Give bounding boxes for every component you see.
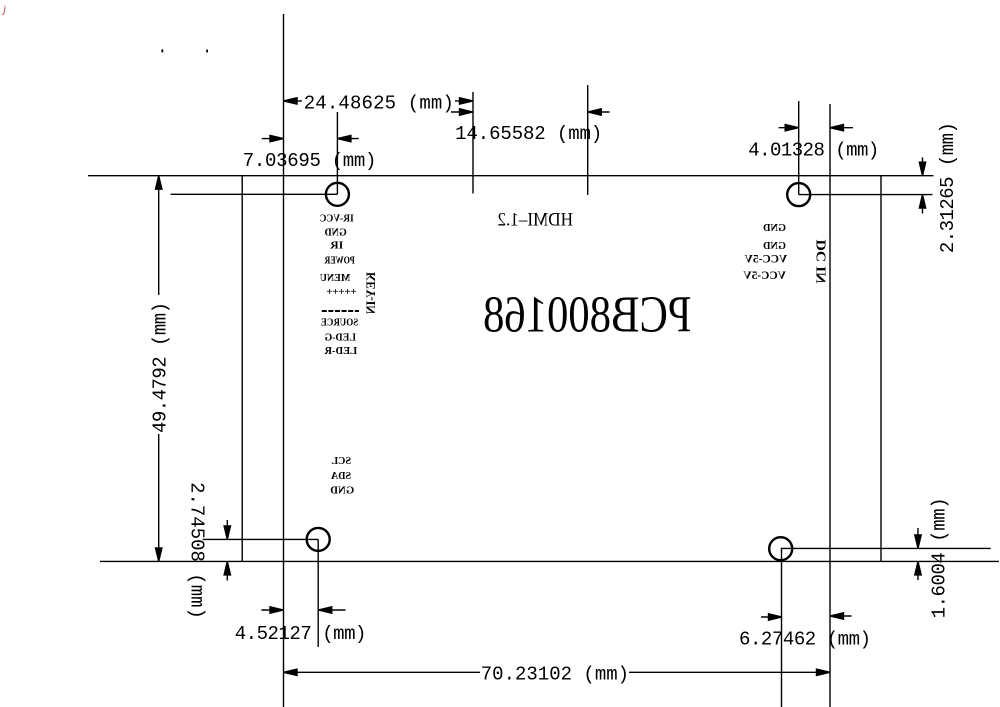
svg-text:LED-R: LED-R bbox=[324, 346, 358, 357]
dimension 70.23102 line-left bbox=[284, 671, 481, 673]
svg-text:GND: GND bbox=[763, 241, 786, 252]
dimension 6.27462 arrow-right outside bbox=[830, 615, 852, 617]
dimension 1.6004 arrow-bottom outside bbox=[917, 561, 919, 580]
svg-text:SDA: SDA bbox=[331, 470, 351, 482]
wire left inner vertical line bbox=[241, 176, 243, 562]
svg-text:LED-G: LED-G bbox=[324, 333, 356, 344]
dimension 24.48625 arrow-left bbox=[284, 98, 298, 104]
wire top-left hole horizontal leader bbox=[171, 193, 338, 195]
dimension 24.48625 line-left bbox=[284, 100, 303, 102]
wire right inner vertical line bbox=[880, 176, 882, 562]
svg-text:24.48625 (mm): 24.48625 (mm) bbox=[304, 92, 454, 114]
dimension 70.23102 line-right bbox=[629, 671, 830, 673]
dimension 24.48625 line-right bbox=[455, 100, 473, 102]
dimension 2.31265 arrow-bottom outside bbox=[922, 195, 924, 214]
dimension 4.52127 arrow-left outside bbox=[261, 609, 283, 611]
svg-text:GND: GND bbox=[330, 484, 354, 496]
svg-text:49.4792 (mm): 49.4792 (mm) bbox=[150, 302, 172, 433]
dimension 4.52127 arrow-right outside bbox=[318, 609, 345, 611]
svg-text:6.27462 (mm): 6.27462 (mm) bbox=[739, 629, 871, 651]
fiducial dot right bbox=[206, 50, 208, 53]
wire bottom-left hole horizontal leader bbox=[203, 538, 319, 540]
svg-text:GND: GND bbox=[325, 228, 347, 239]
wire top-right hole horizontal leader bbox=[799, 194, 933, 196]
wire bottom-right hole vertical extension bbox=[781, 549, 783, 707]
dimension 4.01328 arrow-left outside bbox=[779, 127, 799, 129]
svg-text:7.03695 (mm): 7.03695 (mm) bbox=[243, 150, 377, 172]
svg-text:GND: GND bbox=[763, 223, 786, 234]
fiducial dot left bbox=[161, 49, 163, 52]
svg-text:14.65582 (mm): 14.65582 (mm) bbox=[455, 123, 602, 145]
dimension 14.65582 arrow-right outside bbox=[588, 111, 610, 113]
wire bottom board edge line bbox=[100, 560, 999, 562]
svg-text:KEY-IN: KEY-IN bbox=[363, 272, 378, 315]
dimension 49.4792 arrow-bottom bbox=[156, 548, 162, 562]
wire bottom-left hole vertical extension bbox=[317, 539, 319, 647]
svg-text:2.74508 (mm): 2.74508 (mm) bbox=[186, 482, 208, 619]
svg-text:j: j bbox=[1, 4, 6, 16]
dimension 2.74508 arrow-top outside bbox=[226, 520, 228, 539]
svg-text:+++++: +++++ bbox=[326, 286, 357, 298]
svg-text:IR-VCC: IR-VCC bbox=[320, 214, 354, 225]
dimension 2.31265 arrow-top outside bbox=[922, 157, 924, 175]
silkscreen dash row mirrored bbox=[322, 310, 359, 312]
svg-text:VCC-5V: VCC-5V bbox=[744, 253, 787, 265]
dimension 14.65582 arrow-left outside bbox=[451, 111, 473, 113]
svg-text:SCL: SCL bbox=[331, 455, 351, 467]
svg-text:4.52127 (mm): 4.52127 (mm) bbox=[235, 623, 367, 645]
hole bottom-right bbox=[769, 537, 792, 560]
wire top-right hole vertical extension bbox=[798, 101, 800, 195]
wire bottom-right hole horizontal leader bbox=[781, 547, 991, 549]
hole top-right bbox=[787, 183, 810, 206]
svg-text:MENU: MENU bbox=[320, 273, 350, 284]
dimension 49.4792 arrow-top bbox=[156, 176, 162, 190]
dimension 7.03695 arrow-right outside bbox=[337, 138, 358, 140]
dimension 24.48625 arrow-right bbox=[460, 98, 474, 104]
dimension 2.74508 arrow-bottom outside bbox=[226, 561, 228, 580]
wire top-left hole vertical extension bbox=[336, 112, 338, 194]
hole bottom-left bbox=[307, 528, 330, 551]
svg-text:POWER: POWER bbox=[324, 256, 355, 267]
hole top-left bbox=[326, 183, 349, 206]
dimension 4.01328 arrow-right outside bbox=[830, 127, 853, 129]
dimension 49.4792 line-bottom bbox=[158, 434, 160, 561]
wire long right vertical extension line bbox=[829, 104, 831, 707]
svg-text:IR: IR bbox=[329, 241, 343, 252]
svg-text:70.23102 (mm): 70.23102 (mm) bbox=[481, 664, 629, 686]
svg-text:4.01328 (mm): 4.01328 (mm) bbox=[748, 140, 879, 162]
svg-text:1.6004 (mm): 1.6004 (mm) bbox=[929, 497, 951, 618]
wire extension line x588 bbox=[587, 85, 589, 195]
wire extension line x473 bbox=[472, 92, 474, 194]
svg-text:PCB800168: PCB800168 bbox=[483, 287, 692, 344]
svg-text:2.31265 (mm): 2.31265 (mm) bbox=[937, 122, 959, 253]
dimension 70.23102 arrow-left bbox=[284, 669, 298, 675]
svg-text:DC IN: DC IN bbox=[814, 240, 829, 284]
dimension 6.27462 arrow-left outside bbox=[761, 616, 782, 618]
svg-text:HDMI–1.2: HDMI–1.2 bbox=[497, 210, 573, 231]
svg-text:VCC-5V: VCC-5V bbox=[743, 270, 786, 282]
dimension 70.23102 arrow-right bbox=[817, 669, 831, 675]
wire top board edge line bbox=[88, 175, 934, 177]
dimension 1.6004 arrow-top outside bbox=[917, 528, 919, 548]
dimension 7.03695 arrow-left outside bbox=[262, 138, 284, 140]
svg-text:SOURCE: SOURCE bbox=[321, 318, 359, 329]
wire long left vertical extension line bbox=[283, 14, 285, 707]
dimension 49.4792 line-top bbox=[158, 176, 160, 295]
